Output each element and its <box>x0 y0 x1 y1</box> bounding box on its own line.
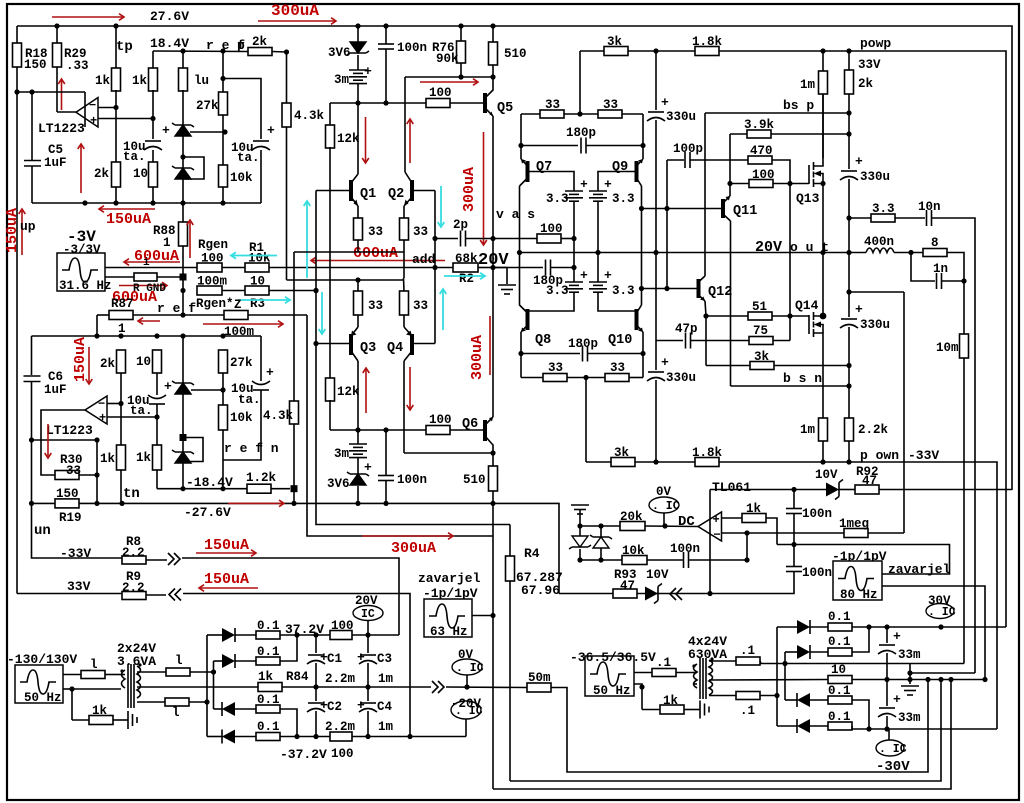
svg-text:3.3: 3.3 <box>546 284 569 298</box>
wire Q4 emitter col <box>403 315 405 327</box>
wire V2 out1 <box>634 672 652 674</box>
resistor R92 47 <box>855 485 879 494</box>
svg-text:+: + <box>604 268 612 283</box>
wire C3 col a <box>367 635 369 653</box>
svg-text:-33V: -33V <box>60 546 91 561</box>
wire Q2 emitter <box>404 197 412 206</box>
resistor 33 q7 <box>540 110 564 118</box>
wire pown left col <box>585 378 587 463</box>
svg-text:47: 47 <box>620 579 635 593</box>
wire 33 rail top <box>521 113 540 115</box>
wire 1k gnd right <box>684 709 700 711</box>
svg-text:33: 33 <box>610 361 625 375</box>
svg-text:un: un <box>34 523 51 539</box>
svg-text:2k: 2k <box>252 35 268 49</box>
wire Q11 e col <box>729 184 731 197</box>
node 33m a top <box>884 624 889 629</box>
wire Q11 base <box>642 208 724 210</box>
wire Q7 emitter <box>521 159 528 166</box>
wire 1m b bottom <box>822 441 824 462</box>
svg-text:Q14: Q14 <box>795 298 819 313</box>
node 20V 656 <box>653 250 658 255</box>
node 33 rail2 <box>583 375 588 380</box>
svg-text:Q12: Q12 <box>708 285 732 300</box>
capacitor 100n servo <box>683 552 685 568</box>
wire z5a b <box>579 549 581 560</box>
wire 33m b col b <box>886 716 888 729</box>
svg-text:1meg: 1meg <box>839 517 869 531</box>
capacitor 10u ta fourth <box>252 381 270 385</box>
svg-text:1k: 1k <box>663 694 679 708</box>
wire zavarjel col <box>492 503 494 789</box>
wire 12k chain <box>329 103 331 125</box>
wire out sense row <box>849 291 904 293</box>
node base-Rgen2 <box>313 288 318 293</box>
wire servo left col <box>709 490 711 594</box>
wire Q13 gate stub <box>790 183 809 185</box>
bubble 0V IC psu <box>452 659 482 675</box>
svg-text:DC: DC <box>678 514 695 530</box>
node 20V <box>490 265 495 270</box>
wire Q10 emitter <box>637 325 644 332</box>
wire pown rail <box>586 462 997 729</box>
wire z5b b <box>600 548 602 560</box>
wire 2k2 bottom <box>120 373 122 445</box>
svg-text:-36.5/36.5V: -36.5/36.5V <box>570 650 656 665</box>
svg-text:1.2k: 1.2k <box>246 471 277 485</box>
node Q12 e <box>703 313 708 318</box>
ground T2 <box>699 701 701 719</box>
wire 180p c row <box>521 353 580 355</box>
resistor R19 150 <box>55 499 79 508</box>
svg-text:300uA: 300uA <box>461 167 478 212</box>
node powp 823 <box>820 48 825 53</box>
node 37V a <box>294 632 299 637</box>
resistor 100 Q5 <box>426 99 450 108</box>
node 180p b <box>571 265 576 270</box>
svg-text:3m: 3m <box>334 73 350 87</box>
svg-text:75: 75 <box>753 324 768 338</box>
wire 598 col b <box>597 253 599 283</box>
node bsp 849 <box>846 110 851 115</box>
svg-text:27.6V: 27.6V <box>150 9 189 24</box>
svg-text:20k: 20k <box>620 510 643 524</box>
capacitor C4 1m <box>360 702 376 704</box>
wire 20V rail <box>520 252 867 254</box>
resistor 1m lower <box>819 418 828 441</box>
capacitor 33m b <box>879 707 895 709</box>
resistor 33 Q1 <box>354 218 363 240</box>
red arrow R GND <box>119 285 167 287</box>
wire tail lower col <box>293 424 295 503</box>
node 180p c r <box>640 351 645 356</box>
svg-text:3k: 3k <box>754 350 770 364</box>
svg-text:1k: 1k <box>136 451 152 465</box>
wire C2 col b <box>315 711 317 737</box>
chevron R93 wire <box>670 588 682 600</box>
svg-text:Q10: Q10 <box>608 333 632 348</box>
wire 3m2 bottom <box>357 458 359 474</box>
wire b3 bottom <box>528 292 575 311</box>
wire Q2 coll col <box>404 77 406 172</box>
wire -30V bub stub <box>888 729 890 740</box>
wire Q4-Q6 <box>404 452 493 454</box>
wire b4 bottom <box>598 292 637 311</box>
svg-text:-27.6V: -27.6V <box>184 505 231 520</box>
resistor R29 <box>53 43 62 67</box>
capacitor C1 2.2m <box>308 654 324 656</box>
node servo r93 <box>707 591 712 596</box>
svg-text:50 Hz: 50 Hz <box>593 684 631 698</box>
wire col183 mid <box>182 268 184 316</box>
wire d5 out <box>852 626 941 628</box>
svg-text:3m: 3m <box>334 447 350 461</box>
svg-text:0.1: 0.1 <box>828 710 851 724</box>
svg-text:R19: R19 <box>59 511 82 525</box>
capacitor 47p <box>685 333 687 349</box>
svg-text:o u t: o u t <box>790 240 829 255</box>
svg-text:-18.4V: -18.4V <box>186 475 233 490</box>
wire U1 output <box>57 111 76 113</box>
wire 3.3-10n <box>895 217 925 219</box>
svg-text:3k: 3k <box>614 446 630 460</box>
node tp bottom <box>113 200 118 205</box>
wire Q9 coll col <box>641 186 643 289</box>
resistor 1 sec top <box>166 668 190 676</box>
node servo 100n a <box>791 487 796 492</box>
transistor Q7 <box>526 161 530 182</box>
wire ref down col <box>307 315 493 536</box>
wire sec top to bridge <box>760 661 964 664</box>
node 3V6b rail <box>355 501 360 506</box>
wire bubble servo <box>663 513 665 526</box>
svg-text:R4: R4 <box>524 546 540 561</box>
node -37V b <box>313 734 318 739</box>
zener 3V6 lower <box>350 474 366 485</box>
resistor 33 q10 <box>605 374 629 382</box>
node Q11 base a <box>639 206 644 211</box>
resistor 100 Q6 <box>426 426 450 435</box>
resistor 1 pri <box>81 671 105 679</box>
svg-text:ta.: ta. <box>130 404 153 418</box>
wire fb col <box>746 533 748 560</box>
svg-text:+: + <box>99 411 106 425</box>
ground vas <box>498 284 516 286</box>
svg-text:Q5: Q5 <box>497 101 513 116</box>
svg-text:27k: 27k <box>196 99 219 113</box>
bubble 0V IC servo <box>649 497 679 513</box>
svg-text:330u: 330u <box>860 170 890 184</box>
node 0V bub <box>464 684 469 689</box>
wire R4 col b <box>510 680 941 782</box>
node 180p c l <box>518 351 523 356</box>
resistor 0.1 h <box>256 733 280 741</box>
node gnd rail 910 <box>907 677 912 682</box>
svg-text:10k: 10k <box>248 252 271 266</box>
capacitor 180p b <box>545 260 547 276</box>
resistor 1k gnd1 <box>89 716 113 725</box>
resistor 0.1 e <box>256 631 280 639</box>
svg-text:0.1: 0.1 <box>257 693 280 707</box>
cyan arrow up input <box>306 201 308 278</box>
svg-text:150uA: 150uA <box>72 337 89 382</box>
wire 3V6 top <box>357 26 359 42</box>
wire 470 corner <box>772 160 790 184</box>
transistor Q12 <box>697 279 701 298</box>
capacitor 330u a <box>841 170 857 172</box>
resistor 2k refp <box>248 48 272 56</box>
transistor Q8 <box>526 309 530 330</box>
resistor 10m <box>960 334 969 358</box>
transistor Q4 <box>410 334 414 355</box>
svg-text:p own: p own <box>860 448 899 463</box>
capacitor 180p a <box>580 138 582 154</box>
node -37V a <box>294 734 299 739</box>
diode D16 <box>222 654 235 668</box>
wire Q7 coll col <box>519 186 521 304</box>
wire 1k servo right <box>766 518 777 545</box>
zener D1 <box>175 125 191 136</box>
wire block2 top rail <box>32 335 262 337</box>
wire U1 fb corner <box>84 92 86 127</box>
node vas <box>490 236 495 241</box>
ground main <box>901 685 919 687</box>
svg-text:33: 33 <box>66 464 81 478</box>
svg-text:+: + <box>580 268 588 283</box>
wire R9 row left <box>17 593 122 595</box>
resistor 4.3k lower <box>290 401 299 424</box>
wire Q4 coll diag <box>404 351 412 361</box>
svg-text:1k: 1k <box>95 74 111 88</box>
wire 3.9k col <box>729 134 731 184</box>
wire zav2 row <box>777 545 950 575</box>
wire Q4 base <box>412 343 435 345</box>
resistor R18 <box>13 43 22 67</box>
resistor 3.3 <box>871 214 895 222</box>
resistor 2k tp <box>112 162 121 187</box>
wire 27k2 bottom <box>222 373 224 405</box>
wire Q5 base <box>450 102 485 104</box>
wire jog b <box>910 672 975 674</box>
wire D3 to 10k node <box>191 389 223 391</box>
red arrow down Q1 <box>365 117 367 163</box>
wire 100p right <box>690 159 748 161</box>
wire -27.6V rail <box>79 503 559 593</box>
wire 849 col e <box>848 253 850 318</box>
svg-text:-37.2V: -37.2V <box>280 747 327 762</box>
wire Q11 emitter <box>723 196 730 203</box>
wire Q8 e col <box>520 332 522 378</box>
wire R4 drop <box>509 525 511 557</box>
wire 10m col top <box>963 281 965 334</box>
wire 849 col g <box>848 366 850 387</box>
wire T2 sec bot <box>709 695 736 697</box>
chevron 0V rail <box>432 681 444 693</box>
wire Q6 emitter <box>485 417 493 425</box>
wire left column un <box>16 92 18 594</box>
capacitor 10u ta second <box>253 140 269 142</box>
capacitor C2 2.2m <box>308 702 324 704</box>
red arrow 300uA mid <box>362 535 453 537</box>
wire 33m a col <box>886 627 888 643</box>
source V1 -3/3V sine <box>57 253 105 291</box>
wire Q12 coll col <box>704 113 706 276</box>
wire e1 out <box>280 634 330 636</box>
svg-text:0.1: 0.1 <box>257 645 280 659</box>
svg-text:.1: .1 <box>656 656 671 670</box>
svg-text:10m: 10m <box>936 341 959 355</box>
svg-text:IC: IC <box>361 608 375 621</box>
wire 2k r top <box>848 51 850 70</box>
svg-text:33m: 33m <box>898 711 921 725</box>
red arrow down Q4 <box>409 367 411 410</box>
wire 849 col b <box>848 134 850 169</box>
wire 75 right <box>773 340 790 342</box>
wire C4 col a <box>367 687 369 701</box>
wire 574 col <box>573 239 575 283</box>
wire add col <box>434 191 436 344</box>
svg-text:1m: 1m <box>378 720 394 734</box>
svg-text:+: + <box>364 64 372 79</box>
resistor 20k <box>620 522 645 531</box>
svg-text:0.1: 0.1 <box>828 610 851 624</box>
svg-text:400n: 400n <box>864 235 894 249</box>
resistor 1u <box>179 68 188 91</box>
transistor Q1 <box>349 180 353 201</box>
wire 849 col a <box>848 113 850 134</box>
wire 100n right <box>689 559 747 561</box>
wire e3-res <box>235 708 256 710</box>
wire C1 col b <box>315 663 317 687</box>
svg-text:Q11: Q11 <box>733 204 757 219</box>
source V3 130V 50Hz <box>15 665 63 703</box>
wire 18.4V rail <box>153 50 248 53</box>
battery 3.3 b <box>589 190 607 192</box>
wire base up col <box>316 191 510 525</box>
svg-text:Rgen*: Rgen* <box>196 297 234 311</box>
svg-text:C4: C4 <box>377 700 393 714</box>
wire d7 row <box>785 699 797 701</box>
capacitor 100p <box>684 152 686 168</box>
resistor 10 lower <box>153 350 162 373</box>
svg-text:1n: 1n <box>933 262 948 276</box>
node powp 849 <box>846 48 851 53</box>
resistor R84 <box>258 683 282 692</box>
svg-text:67.96: 67.96 <box>521 583 560 598</box>
svg-text:l: l <box>90 658 98 672</box>
wire servo top rail <box>710 489 826 491</box>
wire R88 bottom <box>182 246 184 268</box>
svg-text:0.1: 0.1 <box>257 720 280 734</box>
node 100n top rail <box>383 23 388 28</box>
red arrow up mid <box>80 144 82 193</box>
wire 47p row <box>656 340 683 342</box>
svg-text:0V: 0V <box>458 648 474 662</box>
wire C6 upper <box>31 336 33 375</box>
node 100n bottom <box>383 100 388 105</box>
red arrow rail -27.6V <box>228 502 284 504</box>
svg-text:10n: 10n <box>918 200 941 214</box>
resistor R GND series <box>134 273 157 281</box>
wire 33m b col <box>886 680 888 707</box>
bubble 30V IC <box>926 604 954 619</box>
red line vas low <box>489 316 491 375</box>
red arrow up R29 <box>61 79 63 110</box>
svg-text:100n: 100n <box>670 542 700 556</box>
resistor 4.3k upper <box>282 103 291 127</box>
ground TL061 <box>571 504 589 506</box>
wire R4 bottom col <box>509 581 511 781</box>
svg-text:20V: 20V <box>755 239 782 256</box>
svg-text:100: 100 <box>331 619 354 633</box>
wire C5 lower <box>31 166 33 203</box>
wire Q7 base row <box>528 172 575 192</box>
svg-text:12k: 12k <box>337 385 360 399</box>
wire 180p a row <box>521 145 578 147</box>
svg-text:150: 150 <box>56 487 79 501</box>
wire 849 col f <box>848 327 850 366</box>
wire e4-res <box>235 736 256 738</box>
wire R87-Z <box>133 314 224 316</box>
battery 3m upper <box>349 69 367 71</box>
svg-text:. IC: . IC <box>879 743 907 756</box>
wire 180p b right <box>551 267 574 269</box>
svg-text:R2: R2 <box>459 272 474 286</box>
wire zav2 out2 <box>882 586 985 680</box>
resistor Z 100m <box>224 311 248 320</box>
transformer T1 2x24V <box>122 670 126 688</box>
red arrow up left <box>21 209 23 255</box>
wire Q8 coll diag <box>520 304 528 313</box>
red arrow 150uA left <box>99 208 155 210</box>
resistor 3k lower <box>611 458 635 467</box>
wire R18 top <box>16 26 18 43</box>
transistor Q6 <box>483 420 487 441</box>
svg-text:1k: 1k <box>92 704 108 718</box>
wire Q12 emitter <box>699 295 706 301</box>
svg-text:+: + <box>855 302 863 317</box>
resistor 51 <box>748 312 772 320</box>
wire 1k gnd1 row <box>72 719 89 721</box>
node zener rail <box>180 200 185 205</box>
transistor Q10 <box>635 309 639 330</box>
node rail 294 <box>291 501 296 506</box>
resistor R3 10 <box>245 286 269 295</box>
wire jog a <box>909 664 911 680</box>
node Q12 base b <box>664 286 669 291</box>
wire tail upper col <box>293 252 295 401</box>
wire 400n right <box>894 252 923 254</box>
wire R87 left <box>97 314 109 316</box>
wire Q1 bias rail <box>330 102 426 104</box>
wire -27.6V rail left <box>32 502 56 504</box>
svg-text:-33V: -33V <box>908 448 939 463</box>
node gnd rail 887 <box>884 677 889 682</box>
node b2 121 <box>118 333 123 338</box>
svg-text:3V6: 3V6 <box>328 46 351 60</box>
wire R92 right <box>879 489 1012 491</box>
node Q11 base b <box>664 206 669 211</box>
wire Q7 e col <box>520 114 522 159</box>
ground T1 <box>127 711 129 729</box>
wire R8 right <box>182 558 399 635</box>
transformer T2 4x24V <box>694 664 698 688</box>
wire 33 Q2 bottom <box>403 240 405 278</box>
svg-text:. IC: . IC <box>456 662 484 675</box>
node Q6 coll <box>490 450 495 455</box>
wire Q6 base <box>450 429 485 431</box>
svg-text:+: + <box>266 365 274 380</box>
